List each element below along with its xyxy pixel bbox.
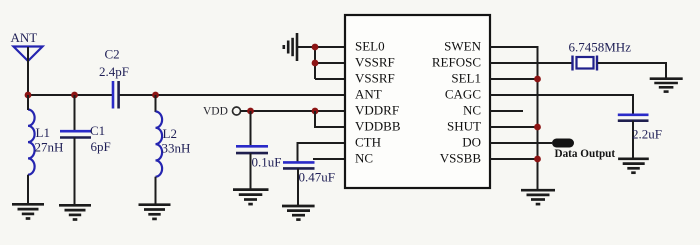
svg-text:DO: DO — [462, 135, 481, 150]
junction VSSRF node — [312, 60, 319, 67]
svg-text:2.2uF: 2.2uF — [632, 127, 662, 142]
wire SWEN to right ground bus — [490, 47, 538, 190]
wire VSSRF pin2 — [315, 62, 345, 64]
svg-text:27nH: 27nH — [35, 140, 64, 155]
ground (0.1uF) — [233, 190, 269, 205]
svg-text:VDD: VDD — [203, 106, 228, 118]
ground (2.2uF) — [618, 159, 649, 173]
svg-text:2.4pF: 2.4pF — [99, 64, 129, 79]
wire VSSRF pin3 — [315, 78, 345, 80]
wire REFOSC to crystal — [490, 62, 572, 64]
svg-text:VSSRF: VSSRF — [355, 71, 395, 86]
svg-text:VSSBB: VSSBB — [440, 151, 482, 166]
wire antenna drop — [27, 47, 29, 95]
svg-text:L1: L1 — [36, 125, 50, 140]
svg-text:C2: C2 — [105, 47, 120, 62]
wire CAGC to 2.2uF — [490, 95, 633, 115]
svg-text:REFOSC: REFOSC — [432, 55, 481, 70]
junction antenna / L1 node — [25, 92, 32, 99]
wire VDDBB branch — [315, 111, 345, 127]
wire ground bus vertical — [314, 47, 316, 79]
capacitor 2.2uF — [618, 115, 649, 159]
junction SEL0 node — [312, 44, 319, 51]
svg-text:L2: L2 — [163, 126, 177, 141]
capacitor C2 (series, horizontal) — [113, 81, 119, 109]
wire ANT node horizontal (antenna to C2 left plate) — [28, 94, 112, 96]
svg-text:SEL0: SEL0 — [355, 39, 385, 54]
wire SHUT to bus — [490, 126, 538, 128]
svg-text:NC: NC — [463, 103, 481, 118]
crystal Y1 6.7458MHz — [573, 56, 598, 71]
svg-text:SHUT: SHUT — [447, 119, 481, 134]
data output terminal pill — [552, 139, 574, 148]
wire VSSBB to bus — [490, 158, 538, 160]
capacitor 0.1uF — [236, 111, 268, 190]
svg-text:0.47uF: 0.47uF — [299, 170, 335, 185]
ground (L2) — [139, 205, 171, 219]
wire DO to data output — [490, 142, 552, 144]
antenna ANT symbol — [14, 47, 43, 62]
inductor L1 — [28, 110, 35, 175]
svg-text:6pF: 6pF — [91, 139, 111, 154]
pin NC (right) stub — [490, 110, 523, 112]
IC U1 receiver body — [345, 15, 490, 188]
svg-text:ANT: ANT — [11, 30, 38, 45]
VDD terminal circle — [233, 107, 241, 115]
capacitor 0.47uF — [283, 162, 315, 206]
pin NC (left) stub — [313, 158, 345, 160]
wire crystal to ground — [598, 63, 667, 79]
svg-text:CAGC: CAGC — [445, 87, 481, 102]
ground (0.47uF) — [282, 206, 315, 220]
svg-text:VDDRF: VDDRF — [355, 103, 399, 118]
svg-text:VSSRF: VSSRF — [355, 55, 395, 70]
svg-text:33nH: 33nH — [162, 141, 191, 156]
wire SEL0 to ground — [297, 46, 345, 48]
junction C1 node — [71, 92, 78, 99]
svg-text:ANT: ANT — [355, 87, 382, 102]
junction L2 node — [152, 92, 159, 99]
svg-text:VDDBB: VDDBB — [355, 119, 401, 134]
svg-text:6.7458MHz: 6.7458MHz — [569, 40, 632, 55]
svg-text:0.1uF: 0.1uF — [252, 155, 282, 170]
junction SHUT node — [534, 124, 541, 131]
svg-text:NC: NC — [355, 151, 373, 166]
wire CTH pin to 0.47uF — [298, 143, 346, 163]
wire L1 bottom lead — [27, 175, 29, 205]
svg-text:SEL1: SEL1 — [451, 71, 481, 86]
inductor L2 — [156, 95, 163, 205]
ground (right bus) — [521, 190, 555, 204]
junction VDD / 0.1uF node — [247, 108, 254, 115]
junction VSSBB node — [534, 156, 541, 163]
ground (crystal) — [650, 79, 683, 92]
ground (L1) — [12, 204, 44, 218]
svg-text:CTH: CTH — [355, 135, 381, 150]
svg-text:C1: C1 — [90, 123, 105, 138]
wire C2 right plate to IC ANT pin — [120, 94, 346, 96]
junction SEL1 node — [534, 76, 541, 83]
wire SEL1 to bus — [490, 78, 538, 80]
svg-text:SWEN: SWEN — [444, 39, 481, 54]
wire L1 top lead — [27, 95, 29, 110]
capacitor C1 — [60, 95, 91, 205]
svg-text:Data Output: Data Output — [555, 148, 616, 160]
ground (SEL0/VSSRF, rotated left) — [284, 33, 297, 61]
junction VDD / VDDBB branch — [312, 108, 319, 115]
wire VDD to VDDRF pin — [240, 110, 345, 112]
ground (C1) — [59, 205, 91, 219]
